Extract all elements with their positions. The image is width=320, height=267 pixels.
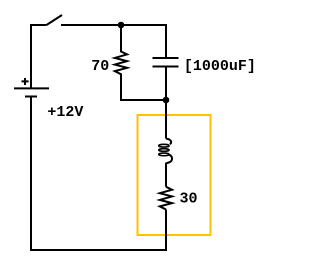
svg-text:+12V: +12V (47, 104, 83, 121)
svg-text:30: 30 (180, 191, 198, 208)
svg-text:70: 70 (91, 58, 109, 75)
svg-text:[1000uF]: [1000uF] (184, 58, 256, 75)
